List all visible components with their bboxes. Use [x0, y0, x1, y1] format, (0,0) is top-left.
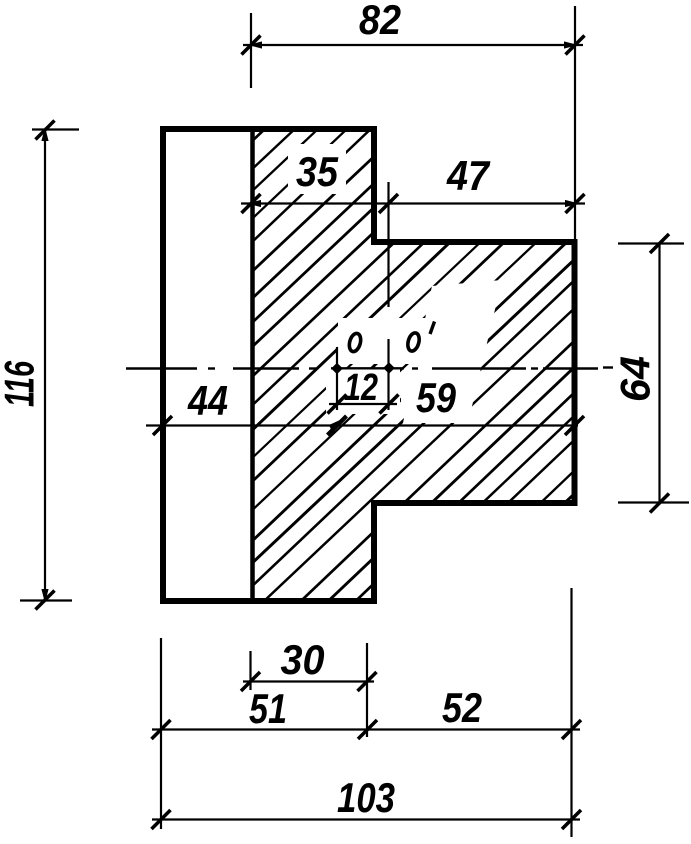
horizontal centre axis (dash-dot) — [126, 368, 613, 369]
dimension line 12 — [329, 403, 397, 405]
svg-text:64: 64 — [612, 356, 659, 402]
svg-text:82: 82 — [359, 0, 401, 43]
svg-text:35: 35 — [296, 148, 339, 195]
extension line through point O — [336, 347, 338, 410]
figure outline — [163, 129, 575, 601]
prime mark of O' — [430, 322, 435, 335]
svg-text:103: 103 — [337, 774, 395, 821]
svg-text:47: 47 — [446, 152, 490, 199]
svg-text:44: 44 — [187, 377, 228, 424]
dimension 116 (left) — [20, 130, 79, 601]
white clearings for labels inside hatch — [288, 144, 502, 423]
label O — [347, 332, 362, 353]
point O' (filled dot) — [383, 362, 395, 374]
svg-text:30: 30 — [281, 636, 325, 683]
label O' — [406, 332, 421, 353]
svg-text:116: 116 — [0, 361, 43, 407]
dimension 44 / 59 — [146, 424, 578, 426]
svg-text:12: 12 — [344, 367, 378, 409]
dimension 82 (top) — [243, 6, 583, 240]
hatching of section — [0, 99, 691, 631]
svg-text:59: 59 — [416, 374, 457, 421]
dimension 103 — [152, 818, 580, 820]
tick marks of dimension 12 — [328, 395, 347, 414]
point O (filled dot) — [331, 363, 343, 375]
dimension 64 (right) — [618, 244, 689, 504]
inner boundary line of white strip — [250, 126, 255, 604]
svg-text:52: 52 — [442, 684, 482, 731]
dimension 51 / 52 — [152, 588, 580, 837]
svg-text:51: 51 — [249, 685, 287, 732]
dimension 30 — [243, 643, 374, 737]
dimension 35 / 47 — [241, 182, 585, 410]
